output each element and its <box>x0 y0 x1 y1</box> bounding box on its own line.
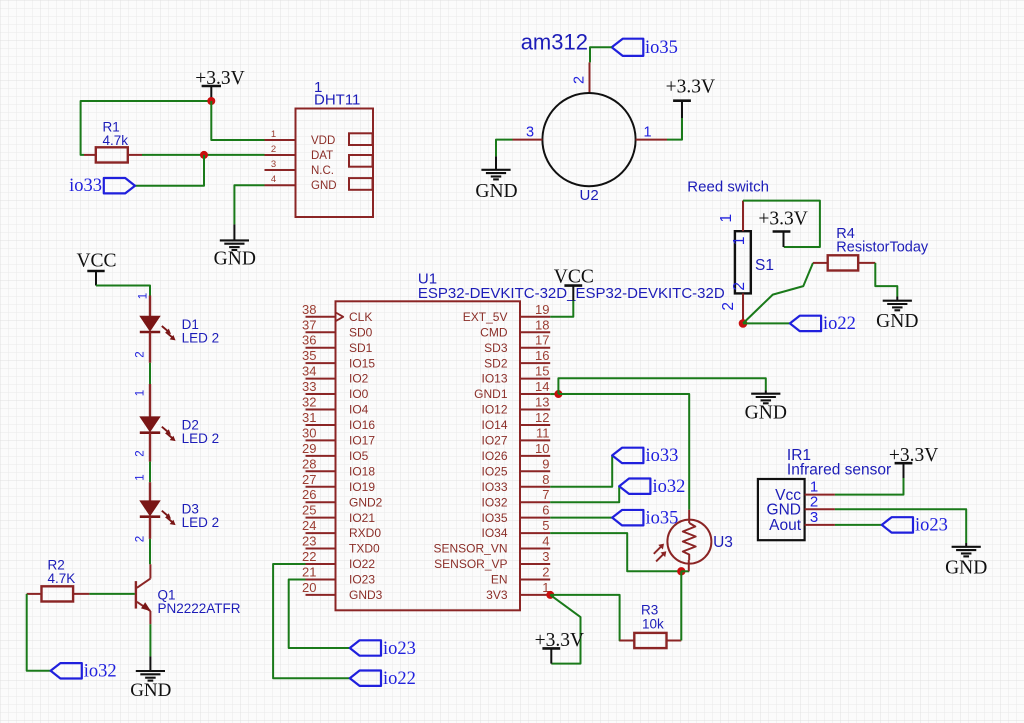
svg-text:EXT_5V: EXT_5V <box>463 310 508 324</box>
netflag io35 (ESP32) <box>612 510 643 525</box>
svg-text:IO5: IO5 <box>349 449 369 463</box>
svg-text:io33: io33 <box>646 446 679 466</box>
ESP32 pin 17 stub <box>520 347 550 349</box>
ground GND (GND1) <box>765 391 767 394</box>
svg-text:24: 24 <box>302 518 316 533</box>
ground GND (Q1) <box>149 656 151 671</box>
svg-text:VCC: VCC <box>76 251 116 272</box>
svg-text:1: 1 <box>135 474 147 480</box>
svg-text:SENSOR_VN: SENSOR_VN <box>433 542 507 556</box>
wire IO34 to R3/U3 node <box>550 533 681 571</box>
svg-text:35: 35 <box>302 348 316 363</box>
svg-text:io22: io22 <box>383 669 416 689</box>
netflag io22 (bottom) <box>350 671 381 686</box>
wire +3.3V to R1 left <box>81 101 212 155</box>
ESP32 pin 27 stub <box>306 486 336 488</box>
svg-text:SD0: SD0 <box>349 325 373 339</box>
wire 3V3 to R3 left <box>550 595 634 641</box>
svg-text:20: 20 <box>302 580 316 595</box>
netflag io32 (ESP32) <box>619 479 650 494</box>
wire S1 node to R4 <box>743 263 813 324</box>
U3 zigzag element <box>683 523 696 560</box>
netflag io35 (am312) <box>612 39 644 56</box>
svg-text:GND: GND <box>475 181 517 202</box>
svg-text:S1: S1 <box>755 257 774 274</box>
svg-text:16: 16 <box>535 348 549 363</box>
svg-text:1: 1 <box>643 124 651 140</box>
U3 top stub <box>688 510 690 523</box>
svg-text:IO27: IO27 <box>481 434 507 448</box>
ESP32 pin 34 stub <box>306 378 336 380</box>
svg-text:14: 14 <box>535 379 549 394</box>
wire Q1 emitter to ground <box>149 624 151 656</box>
svg-text:DAT: DAT <box>311 150 333 162</box>
ESP32 pin 22 stub <box>306 563 336 565</box>
ESP32 pin 3 stub <box>520 563 550 565</box>
wire D2 cathode to D3 anode <box>149 462 151 483</box>
svg-text:GND: GND <box>876 311 918 332</box>
svg-text:io22: io22 <box>823 314 856 334</box>
svg-text:IO19: IO19 <box>349 480 375 494</box>
DHT11 pad GND <box>349 178 373 190</box>
svg-text:4: 4 <box>542 534 549 549</box>
ESP32 pin 30 stub <box>306 439 336 441</box>
junction S1 pin2 node <box>739 319 748 328</box>
svg-text:Reed switch: Reed switch <box>687 179 769 196</box>
ESP32 pin 19 stub <box>520 316 550 318</box>
svg-text:2: 2 <box>810 493 818 510</box>
IR1 pin 3 stub <box>805 524 835 526</box>
LED D1 cathode bar <box>140 331 160 334</box>
svg-text:26: 26 <box>302 487 316 502</box>
svg-text:GND: GND <box>745 403 787 424</box>
ground GND (R4) <box>896 297 898 301</box>
svg-text:3: 3 <box>526 124 534 140</box>
transistor Q1 emitter pin <box>149 611 151 624</box>
ESP32 pin 33 stub <box>306 393 336 395</box>
wire 3V3 to +3.3V <box>550 595 580 664</box>
svg-text:3: 3 <box>542 549 549 564</box>
svg-text:IO23: IO23 <box>349 573 375 587</box>
svg-text:2: 2 <box>271 144 276 155</box>
svg-text:IO33: IO33 <box>481 480 507 494</box>
svg-text:IO26: IO26 <box>481 449 507 463</box>
svg-text:IO0: IO0 <box>349 387 369 401</box>
LED D3 anode pin <box>149 482 151 501</box>
svg-text:36: 36 <box>302 333 316 348</box>
svg-text:GND: GND <box>945 558 987 579</box>
svg-text:io32: io32 <box>84 661 117 681</box>
svg-text:38: 38 <box>302 302 316 317</box>
U2 pin 2 stub <box>589 62 591 93</box>
wire VCC to D1 anode <box>96 286 150 297</box>
ESP32 pin 2 stub <box>520 578 550 580</box>
svg-text:5: 5 <box>542 518 549 533</box>
svg-text:am312: am312 <box>521 30 588 55</box>
svg-text:GND: GND <box>311 180 337 192</box>
ESP32 pin 37 stub <box>306 331 336 333</box>
svg-text:Aout: Aout <box>769 517 802 534</box>
svg-text:Infrared sensor: Infrared sensor <box>787 461 891 478</box>
ESP32 pin 15 stub <box>520 378 550 380</box>
photoresistor U3 body <box>667 520 711 564</box>
svg-text:LED 2: LED 2 <box>182 431 220 446</box>
DHT11 pad VDD <box>349 133 373 145</box>
transistor Q1 collector pin <box>149 564 151 578</box>
LED D3 cathode bar <box>140 515 160 518</box>
svg-text:io35: io35 <box>645 38 678 58</box>
resistor R2 <box>27 593 42 595</box>
svg-text:25: 25 <box>302 503 316 518</box>
wire R1 to DHT11 DAT <box>142 154 265 156</box>
wire U2 pin1 to +3.3V <box>667 118 682 140</box>
svg-text:IO16: IO16 <box>349 418 375 432</box>
DHT11 pin 2 stub <box>265 154 296 156</box>
svg-text:12: 12 <box>535 410 549 425</box>
svg-text:33: 33 <box>302 379 316 394</box>
IR1 pin 1 stub <box>805 494 835 496</box>
wire IO32 to io32 flag <box>550 486 619 502</box>
svg-text:IO34: IO34 <box>481 526 507 540</box>
wire +3.3V junction to DHT11 VDD <box>211 101 264 140</box>
svg-text:4.7k: 4.7k <box>103 133 129 148</box>
svg-text:GND: GND <box>130 680 171 701</box>
ESP32 pin 21 stub <box>306 578 336 580</box>
LED D3 light arrows <box>162 511 169 517</box>
svg-text:IO22: IO22 <box>349 557 375 571</box>
svg-text:SD1: SD1 <box>349 341 373 355</box>
svg-text:io33: io33 <box>69 176 102 196</box>
svg-text:4: 4 <box>271 174 276 185</box>
ESP32 pin 35 stub <box>306 362 336 364</box>
ESP32 pin 13 stub <box>520 409 550 411</box>
svg-text:2: 2 <box>135 536 147 542</box>
svg-text:21: 21 <box>302 564 316 579</box>
IR1 pin 2 stub <box>805 508 835 510</box>
LED D1 light arrows <box>162 326 169 332</box>
svg-text:17: 17 <box>535 333 549 348</box>
ESP32 pin 20 stub <box>306 594 336 596</box>
DHT11 pad DAT <box>349 155 373 167</box>
svg-text:IO35: IO35 <box>481 511 507 525</box>
wire io35 flag to U2 pin2 <box>590 47 612 62</box>
LED D1 triangle <box>140 316 160 331</box>
transistor Q1 base bar <box>135 581 137 609</box>
S1 pin 2 stub <box>742 293 744 323</box>
svg-text:SENSOR_VP: SENSOR_VP <box>434 557 507 571</box>
svg-text:EN: EN <box>491 573 508 587</box>
ESP32 pin 9 stub <box>520 470 550 472</box>
ESP32 pin 11 stub <box>520 439 550 441</box>
ESP32 pin 12 stub <box>520 424 550 426</box>
wire GND1 to node <box>550 393 558 395</box>
ESP32 pin 14 stub <box>520 393 550 395</box>
LED D2 triangle <box>140 417 160 432</box>
svg-text:2: 2 <box>720 302 737 311</box>
svg-text:ResistorToday: ResistorToday <box>836 240 929 256</box>
svg-text:SD3: SD3 <box>484 341 508 355</box>
svg-text:GND1: GND1 <box>474 387 508 401</box>
svg-text:2: 2 <box>731 282 748 291</box>
IR1 body <box>758 479 805 540</box>
ESP32 pin 18 stub <box>520 331 550 333</box>
svg-text:8: 8 <box>542 472 549 487</box>
ESP32 pin 6 stub <box>520 517 550 519</box>
svg-text:GND: GND <box>767 502 801 519</box>
wire IO33 to io33 flag <box>550 455 612 486</box>
LED D2 anode pin <box>149 384 151 417</box>
svg-text:VDD: VDD <box>311 135 335 147</box>
svg-text:27: 27 <box>302 472 316 487</box>
LED D2 cathode pin <box>149 433 151 462</box>
DHT11 pin 3 stub <box>265 169 296 171</box>
svg-text:GND3: GND3 <box>349 588 383 602</box>
svg-text:IO17: IO17 <box>349 434 375 448</box>
svg-text:IO14: IO14 <box>481 418 507 432</box>
svg-text:GND: GND <box>214 249 256 270</box>
svg-text:IO15: IO15 <box>349 356 375 370</box>
svg-text:R3: R3 <box>641 603 658 618</box>
svg-text:LED 2: LED 2 <box>182 331 220 346</box>
svg-text:10k: 10k <box>642 616 664 631</box>
svg-text:IO18: IO18 <box>349 464 375 478</box>
transistor Q1 collector diagonal <box>137 579 151 588</box>
wire DAT node to io33 flag <box>135 155 204 186</box>
LED D3 triangle <box>140 501 160 516</box>
netflag io22 (S1) <box>790 316 821 331</box>
svg-text:SD2: SD2 <box>484 356 508 370</box>
svg-text:io23: io23 <box>915 516 948 536</box>
wire DHT11 GND pin to ground <box>234 185 264 224</box>
LED D2 light arrows <box>162 427 169 433</box>
svg-text:CMD: CMD <box>480 325 508 339</box>
wire D1 cathode to D2 anode <box>149 363 151 384</box>
resistor R3 <box>620 640 635 642</box>
junction GND1 node <box>554 390 562 398</box>
svg-text:io32: io32 <box>653 477 686 497</box>
netflag io33 (ESP32) <box>612 448 643 463</box>
ESP32 pin 23 stub <box>306 548 336 550</box>
resistor R4 <box>813 262 828 264</box>
svg-text:3: 3 <box>810 509 818 526</box>
ESP32 pin 8 stub <box>520 486 550 488</box>
ground GND (U2) <box>495 156 497 169</box>
PIR sensor U2 body <box>542 93 635 186</box>
U3 light arrows <box>654 546 662 554</box>
ESP32 pin 38 stub <box>306 316 336 318</box>
wire IO35 to io35 flag <box>550 517 612 519</box>
svg-text:io23: io23 <box>383 639 416 659</box>
svg-text:13: 13 <box>535 395 549 410</box>
wire EXT_5V to VCC <box>550 301 573 317</box>
svg-text:DHT11: DHT11 <box>314 92 360 109</box>
wire R2 to Q1 base <box>89 593 134 595</box>
svg-text:22: 22 <box>302 549 316 564</box>
svg-text:IO32: IO32 <box>481 495 507 509</box>
ESP32 pin 1 stub <box>520 594 550 596</box>
transistor Q1 emitter arrow <box>141 602 151 611</box>
ESP32 pin 5 stub <box>520 532 550 534</box>
svg-text:IO2: IO2 <box>349 372 369 386</box>
svg-text:30: 30 <box>302 425 316 440</box>
svg-text:2: 2 <box>542 564 549 579</box>
wire S1 pin1 to +3.3V <box>743 201 820 247</box>
netflag io23 (bottom) <box>350 640 381 655</box>
svg-text:19: 19 <box>535 302 549 317</box>
svg-text:N.C.: N.C. <box>311 165 334 177</box>
svg-text:34: 34 <box>302 364 316 379</box>
svg-text:6: 6 <box>542 503 549 518</box>
U2 pin 1 stub <box>636 139 667 141</box>
svg-text:15: 15 <box>535 364 549 379</box>
junction 3V3 node <box>546 591 554 599</box>
svg-text:CLK: CLK <box>349 310 372 324</box>
DHT11 body <box>296 109 374 218</box>
svg-text:RXD0: RXD0 <box>349 526 381 540</box>
ESP32 pin 4 stub <box>520 548 550 550</box>
svg-text:IO25: IO25 <box>481 464 507 478</box>
wire S1 node to io22 flag <box>743 322 790 324</box>
svg-text:3: 3 <box>271 159 276 170</box>
ESP32 U1 body <box>336 301 521 610</box>
U2 pin 3 stub <box>513 139 543 141</box>
wire node to U3 bottom stub <box>681 570 689 572</box>
DHT11 pin 4 stub <box>265 184 296 186</box>
S1 pin 1 stub <box>742 201 744 232</box>
svg-text:2: 2 <box>572 76 588 84</box>
svg-text:U3: U3 <box>713 534 733 551</box>
netflag io32 <box>51 663 82 678</box>
ESP32 pin 25 stub <box>306 517 336 519</box>
LED D3 cathode pin <box>149 517 151 539</box>
svg-text:2: 2 <box>135 450 147 456</box>
svg-text:1: 1 <box>731 236 748 245</box>
wire R2 to io32 flag <box>27 594 51 671</box>
svg-text:28: 28 <box>302 456 316 471</box>
ESP32 pin 29 stub <box>306 455 336 457</box>
svg-text:U2: U2 <box>580 187 599 204</box>
ESP32 pin 31 stub <box>306 424 336 426</box>
ground GND (DHT11) <box>233 224 235 240</box>
ESP32 pin 36 stub <box>306 347 336 349</box>
svg-text:9: 9 <box>542 456 549 471</box>
svg-text:3V3: 3V3 <box>486 588 508 602</box>
wire U2 pin3 to ground <box>496 140 513 157</box>
svg-text:PN2222ATFR: PN2222ATFR <box>158 601 241 616</box>
svg-text:IO12: IO12 <box>481 403 507 417</box>
wire R4 to ground <box>875 263 897 297</box>
junction DAT node <box>200 151 208 159</box>
junction +3.3V node <box>207 97 215 105</box>
svg-text:29: 29 <box>302 441 316 456</box>
wire IR1 Aout to io23 flag <box>835 524 882 526</box>
svg-text:+3.3V: +3.3V <box>758 209 807 230</box>
ESP32 pin 28 stub <box>306 470 336 472</box>
LED D1 anode pin <box>149 296 151 317</box>
svg-text:31: 31 <box>302 410 316 425</box>
svg-text:1: 1 <box>718 214 735 223</box>
svg-text:1: 1 <box>138 293 150 299</box>
ESP32 pin 32 stub <box>306 409 336 411</box>
ESP32 pin 16 stub <box>520 362 550 364</box>
svg-text:LED 2: LED 2 <box>182 515 220 530</box>
svg-text:23: 23 <box>302 534 316 549</box>
LED D1 cathode pin <box>149 332 151 363</box>
ESP32 pin 10 stub <box>520 455 550 457</box>
svg-text:IO4: IO4 <box>349 403 369 417</box>
reed switch S1 body <box>735 231 751 293</box>
ESP32 CLK clock caret <box>336 312 344 321</box>
svg-text:32: 32 <box>302 395 316 410</box>
svg-text:11: 11 <box>536 425 550 440</box>
svg-text:IO21: IO21 <box>349 511 375 525</box>
ESP32 pin 24 stub <box>306 532 336 534</box>
wire IO23 to io23 flag <box>289 579 350 648</box>
U3 bottom stub <box>688 560 690 571</box>
svg-text:37: 37 <box>302 317 316 332</box>
wire D3 cathode to Q1 collector <box>149 539 151 564</box>
wire IO22 to io22 flag <box>273 564 350 678</box>
svg-text:4.7K: 4.7K <box>48 571 76 586</box>
junction R3/U3 node <box>677 567 685 575</box>
resistor R1 <box>84 154 96 156</box>
svg-text:+3.3V: +3.3V <box>666 77 715 98</box>
LED D2 cathode bar <box>140 431 160 434</box>
DHT11 pin 1 stub <box>265 139 296 141</box>
svg-text:10: 10 <box>535 441 549 456</box>
svg-text:2: 2 <box>135 351 147 357</box>
svg-text:7: 7 <box>542 487 549 502</box>
transistor Q1 emitter diagonal <box>137 602 151 611</box>
wire IR1 GND to ground <box>835 509 966 543</box>
svg-text:18: 18 <box>535 317 549 332</box>
netflag io23 (IR1) <box>882 517 913 532</box>
netflag io33 (left) <box>104 178 135 193</box>
ESP32 pin 7 stub <box>520 501 550 503</box>
svg-text:TXD0: TXD0 <box>349 542 380 556</box>
wire GND1 node to U3 top <box>558 394 689 510</box>
svg-text:1: 1 <box>271 129 276 140</box>
svg-text:1: 1 <box>135 390 147 396</box>
svg-text:GND2: GND2 <box>349 495 383 509</box>
wire R3 right to node <box>680 571 682 640</box>
svg-text:IO13: IO13 <box>481 372 507 386</box>
wire IR1 Vcc to +3.3V <box>835 478 904 495</box>
wire GND1 node to ground <box>558 378 765 394</box>
ground GND (IR1) <box>965 543 967 547</box>
ESP32 pin 26 stub <box>306 501 336 503</box>
